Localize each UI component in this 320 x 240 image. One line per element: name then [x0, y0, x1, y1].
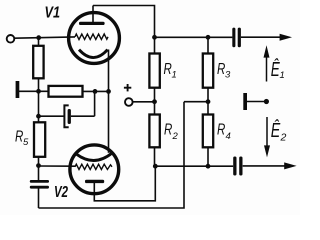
capacitor output 2 plate right: [239, 157, 242, 176]
wire grid resistor top lead: [38, 38, 40, 46]
wire node to bypass cap: [39, 115, 64, 117]
node R5 bottom V2 grid: [36, 163, 41, 168]
capacitor coupling plate bottom: [30, 186, 49, 189]
svg-text:5: 5: [23, 137, 29, 148]
wire V2 grid lead: [39, 165, 76, 167]
input terminal: [7, 35, 15, 43]
svg-text:R: R: [217, 121, 226, 138]
node common dot: [264, 99, 269, 104]
V2 plate bar: [85, 180, 104, 183]
wire R4 bottom lead: [207, 147, 209, 166]
resistor R2: [149, 115, 159, 148]
svg-text:V2: V2: [54, 184, 68, 201]
wire R1 bottom lead: [154, 88, 156, 102]
resistor R5: [34, 122, 45, 157]
node bypass cap branch: [36, 114, 41, 119]
capacitor coupling plate top: [30, 180, 49, 183]
wire common bar to dot: [247, 101, 265, 103]
wire R3 bottom lead: [207, 88, 209, 102]
arrow output 2: [284, 162, 296, 169]
wire output 1 to arrow: [241, 36, 281, 38]
V1 cathode arc: [79, 50, 108, 58]
node cathode resistor left: [36, 89, 41, 94]
svg-text:1: 1: [280, 70, 285, 81]
node row1 left: [152, 35, 157, 40]
node R1 R2 junction: [152, 99, 157, 104]
wire cathode resistor right to cathode line: [83, 90, 109, 92]
wire output row 2: [155, 165, 233, 167]
tube V1: [69, 13, 120, 64]
capacitor output 1 plate right: [238, 28, 241, 48]
resistor cathode horizontal (unlabeled): [49, 86, 83, 97]
arrow E1 up: [266, 55, 268, 82]
wire V2 plate to output row 2: [94, 166, 155, 201]
svg-text:2: 2: [172, 131, 179, 142]
wire middle terminal to R1 R2 junction: [133, 101, 155, 103]
svg-text:1: 1: [172, 70, 177, 81]
wire R5 bottom lead: [38, 157, 40, 166]
tube V2: [70, 145, 119, 194]
middle terminal: [125, 98, 133, 106]
node row2 R4: [206, 164, 211, 169]
svg-text:Ê: Ê: [271, 119, 281, 142]
resistor R3: [203, 54, 213, 88]
wire junction R3 R4 horizontal: [184, 101, 208, 103]
svg-text:4: 4: [226, 131, 231, 142]
wire bypass cap to riser: [71, 115, 95, 117]
svg-text:2: 2: [280, 132, 287, 144]
ground bar right common: [243, 93, 247, 110]
arrow E2 down: [266, 117, 268, 147]
wire V1 plate lead: [92, 6, 94, 24]
wire grid resistor bottom lead: [38, 78, 40, 91]
arrow output 1: [280, 34, 292, 41]
svg-text:3: 3: [225, 70, 231, 81]
ground bar left: [16, 81, 20, 98]
wire bottom rail up to R3 R4 junction: [39, 102, 185, 208]
wire input to V1 grid: [14, 37, 75, 38]
wire cathode link V1 to V2: [108, 50, 110, 153]
resistor R4: [203, 115, 213, 148]
wire coupling cap top lead: [38, 166, 40, 180]
wire riser cap to cathode row: [94, 91, 96, 116]
V2 cathode arc: [77, 153, 113, 161]
V2 grid zigzag: [75, 164, 112, 169]
node cathode row right: [93, 89, 98, 94]
capacitor bypass curved plate: [64, 105, 68, 127]
wire output 2 to arrow: [243, 165, 285, 167]
node cathode line: [106, 89, 111, 94]
wire output row 1: [155, 36, 233, 38]
wire left column down to R5: [38, 91, 40, 122]
node row2 left: [153, 164, 158, 169]
node input junction: [36, 35, 41, 40]
resistor grid (unlabeled): [33, 46, 43, 79]
wire left bar to cathode resistor: [19, 90, 49, 92]
wire R3 top lead: [207, 37, 209, 53]
wire R2 bottom lead: [154, 147, 156, 166]
node R3 R4 junction: [206, 99, 211, 104]
wire R2 top lead: [154, 102, 156, 115]
wire coupling cap bottom lead: [38, 188, 40, 208]
wire top rail to row 1: [93, 6, 155, 38]
svg-text:R: R: [164, 121, 173, 138]
capacitor output 2 plate left: [233, 157, 236, 176]
V1 grid zigzag: [75, 34, 108, 40]
resistor R1: [149, 54, 159, 88]
V1 plate bar: [79, 22, 105, 25]
plus sign: [124, 84, 131, 91]
wire R4 top lead: [207, 102, 209, 115]
capacitor bypass bar plate: [68, 109, 71, 124]
wire R1 top lead: [154, 37, 156, 53]
capacitor output 1 plate left: [232, 28, 235, 48]
node row1 R3: [206, 35, 211, 40]
svg-text:V1: V1: [45, 4, 61, 21]
